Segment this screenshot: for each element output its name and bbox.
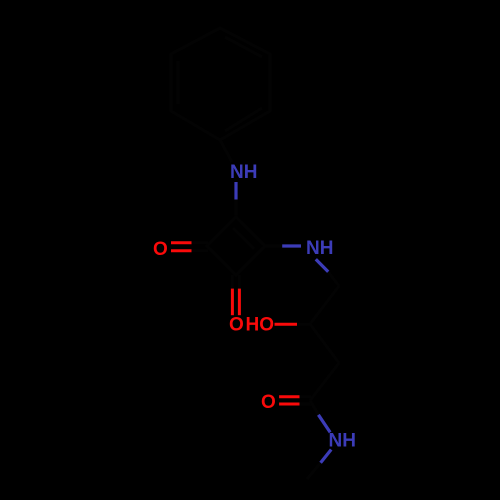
blue half-bond N(top)-C1 bbox=[234, 182, 237, 200]
svg-text:O: O bbox=[261, 392, 276, 413]
red C4=O half right bbox=[238, 289, 241, 316]
bond C4=O dark part left bbox=[231, 275, 234, 289]
bond C2-N dark half bbox=[265, 245, 283, 248]
bond N-CH3 dark half bbox=[307, 463, 321, 479]
svg-text:NH: NH bbox=[230, 162, 257, 183]
bond ring-N (dark part) bbox=[220, 140, 232, 162]
bond Cam=O dark part upper bbox=[299, 395, 311, 398]
bond Cam=O dark part lower bbox=[299, 403, 311, 406]
bond C3=O dark part upper bbox=[191, 241, 208, 244]
cyclobutene ring bbox=[207, 217, 265, 275]
bond CH2-Cam bbox=[310, 363, 339, 401]
bond CH2-CHOH bbox=[310, 286, 339, 324]
bond Cam-N dark half bbox=[310, 401, 319, 415]
svg-text:O: O bbox=[229, 315, 244, 336]
blue half-bond N(bottom)-CH3 bbox=[321, 450, 332, 463]
red C3=O half lower bbox=[171, 249, 192, 252]
red C3=O half upper bbox=[171, 241, 192, 244]
aromatic inner line 2 bbox=[225, 108, 262, 131]
bond N-CH2 dark half bbox=[328, 272, 339, 286]
red HO-C half bbox=[275, 323, 298, 326]
svg-text:O: O bbox=[153, 239, 168, 260]
phenyl ring bbox=[171, 28, 270, 140]
bond C4=O dark part right bbox=[238, 275, 241, 289]
bond CHOH-O dark half bbox=[297, 323, 311, 326]
bond N-C1 dark half bbox=[235, 199, 238, 217]
red Cam=O half upper bbox=[279, 395, 299, 398]
blue half-bond Cam-N(bottom) bbox=[318, 415, 330, 433]
svg-text:NH: NH bbox=[306, 238, 333, 259]
ring inner double bond bbox=[233, 228, 254, 249]
aromatic inner line 3 bbox=[177, 61, 180, 104]
blue half-bond C2-N(right) bbox=[282, 244, 301, 247]
bond C3=O dark part lower bbox=[191, 249, 208, 252]
blue half-bond N(right)-CH2 bbox=[316, 259, 328, 272]
svg-text:NH: NH bbox=[329, 431, 356, 452]
red Cam=O half lower bbox=[279, 403, 299, 406]
svg-text:HO: HO bbox=[246, 315, 275, 336]
red C4=O half left bbox=[231, 289, 234, 316]
aromatic inner line 1 bbox=[225, 37, 262, 57]
bond CHOH-CH2 bbox=[310, 324, 339, 363]
